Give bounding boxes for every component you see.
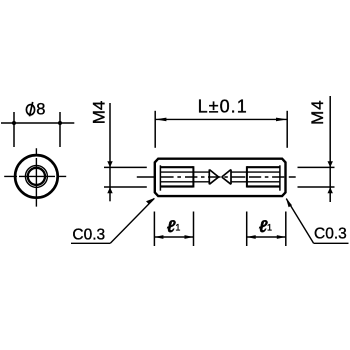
dim l1 right: right extension line (285, 212, 287, 247)
dim l1 right: left extension line (246, 212, 248, 247)
chamfer note left: arrowhead (146, 198, 155, 204)
chamfer note left: leader line (110, 198, 154, 243)
left end view: horizontal centerline (4, 175, 66, 177)
dim L: right arrowhead (276, 118, 287, 122)
dim phi8: dimension line (1, 122, 74, 124)
dim M4 right: upper extension line (298, 166, 335, 168)
left end view: tapped hole circle (thick) (28, 168, 45, 185)
dim l1 right: dimension line (247, 236, 286, 238)
dim l1 left: left arrowhead (154, 235, 163, 239)
left thread: drill cone lower (209, 177, 218, 184)
svg-text:C0.3: C0.3 (314, 225, 347, 242)
dim phi8: right extension line (59, 112, 61, 147)
svg-text:M4: M4 (90, 101, 109, 125)
svg-text:1: 1 (267, 223, 272, 233)
side view: right chamfer edge line (279, 165, 281, 190)
dim M4 right: lower extension line (298, 186, 335, 188)
dim L: dimension line (155, 118, 287, 120)
right thread: drill cone lower (222, 177, 231, 184)
dim M4 left: dimension line vertical (109, 103, 111, 201)
dim M4 left: up arrowhead (107, 187, 112, 193)
svg-text:L±0.1: L±0.1 (198, 97, 248, 117)
right thread: lower minor line (thin) (231, 181, 280, 183)
left thread: end edge vertical (192, 166, 194, 187)
right thread: upper minor line (thin) (231, 171, 280, 173)
dim M4 left: lower extension line (104, 186, 147, 188)
left thread: upper major line (thick) (160, 166, 193, 168)
left thread: lower minor line (thin) (160, 181, 209, 183)
left thread: lower major line (thick) (160, 185, 193, 187)
svg-text:1: 1 (175, 223, 180, 233)
right thread: drill cone upper (222, 170, 231, 178)
dim l1 left: right arrowhead (185, 235, 194, 239)
svg-text:8: 8 (36, 101, 45, 119)
chamfer note right: leader line (286, 199, 313, 244)
svg-text:ℓ: ℓ (167, 217, 176, 236)
dim l1 right: left arrowhead (247, 235, 256, 239)
right thread: drill hole end vertical (230, 170, 232, 185)
dim phi8: label phi symbol (26, 102, 34, 116)
side view: horizontal centerline (dash-dot) (137, 176, 296, 178)
right thread: end edge vertical (246, 166, 248, 187)
dim phi8: left extension line (13, 112, 15, 147)
dim M4 left: down arrowhead (107, 161, 112, 167)
left thread: upper minor line (thin) (160, 171, 209, 173)
dim l1 right: right arrowhead (277, 235, 286, 239)
left end view: thread major circle (thin) (25, 165, 47, 187)
left thread: drill cone upper (209, 170, 218, 178)
dim phi8: right dot terminator (58, 121, 62, 125)
dim M4 right: up arrowhead (328, 187, 333, 193)
dim M4 right: down arrowhead (328, 161, 333, 167)
dim l1 left: left extension line (153, 212, 155, 247)
dim L: right extension line (286, 111, 288, 148)
right thread: lower major line (thick) (247, 185, 280, 187)
dim l1 left: dimension line (154, 236, 193, 238)
dim L: left extension line (154, 111, 156, 148)
dim phi8: left dot terminator (12, 121, 16, 125)
chamfer note right: underline (314, 242, 349, 244)
chamfer note right: arrowhead (286, 198, 292, 207)
left thread: drill hole end vertical (208, 170, 210, 185)
chamfer note left: underline (71, 242, 110, 244)
dim L: left arrowhead (155, 118, 166, 122)
svg-text:M4: M4 (308, 99, 327, 124)
side view: body outline with chamfered corners (155, 159, 286, 196)
dim M4 right: dimension line vertical (329, 96, 331, 202)
left end view: outer circle (body dia) (15, 155, 58, 198)
right thread: upper major line (thick) (247, 166, 280, 168)
dim l1 left: right extension line (193, 212, 195, 247)
side view: left chamfer edge line (159, 165, 161, 190)
dim M4 left: upper extension line (104, 166, 147, 168)
svg-text:C0.3: C0.3 (72, 226, 105, 243)
left end view: vertical centerline (35, 148, 37, 206)
